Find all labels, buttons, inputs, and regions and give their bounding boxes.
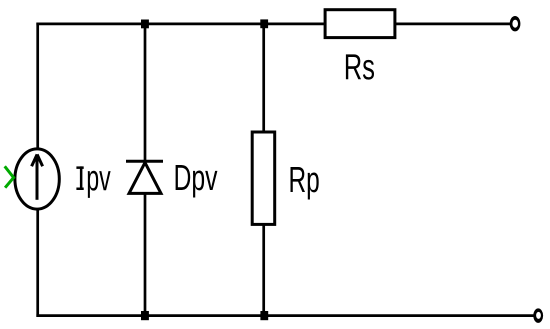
diode Dpv cathode bar: [126, 160, 163, 163]
wire bottom node: [36, 314, 533, 317]
label Rp: [291, 167, 319, 200]
label Dpv: [176, 165, 218, 198]
wire: Rs right terminal to output terminal P1: [396, 23, 511, 26]
wire Rp branch lower: [262, 225, 265, 317]
junction top at Rp branch: [260, 19, 268, 28]
junction bottom at diode branch: [141, 311, 149, 320]
label Ipv pv: [88, 171, 111, 198]
wire left branch lower: current source down to bottom node: [36, 209, 39, 317]
label Ipv I-stem: [80, 166, 83, 190]
junction bottom at Rp branch: [260, 311, 268, 320]
wire top node: left corner to diode junction: [36, 23, 145, 26]
resistor Rs (horizontal box): [325, 10, 395, 38]
junction top at diode branch: [141, 20, 149, 29]
current source Ipv (circle): [15, 149, 59, 209]
terminal P1 (top output, open circle): [510, 16, 521, 31]
wire diode branch upper: [144, 23, 147, 161]
label Ipv I-serif-top: [76, 166, 83, 169]
wire Rp branch upper: [262, 23, 265, 132]
terminal P2 (bottom output, open circle): [533, 308, 543, 323]
label Ipv I-serif-bottom: [76, 188, 83, 191]
diode Dpv triangle: [129, 163, 161, 194]
wire top node: Rp junction to Rs left terminal: [264, 23, 325, 26]
label Rs: [346, 54, 374, 79]
wire left branch upper: top node down to current source: [36, 23, 39, 149]
resistor Rp (vertical box): [252, 132, 275, 224]
wire diode branch lower: [144, 194, 147, 317]
wire top node: diode junction to Rp junction: [145, 23, 264, 26]
current source Ipv arrow: [32, 154, 43, 199]
green selection marker at current source: [5, 166, 14, 187]
